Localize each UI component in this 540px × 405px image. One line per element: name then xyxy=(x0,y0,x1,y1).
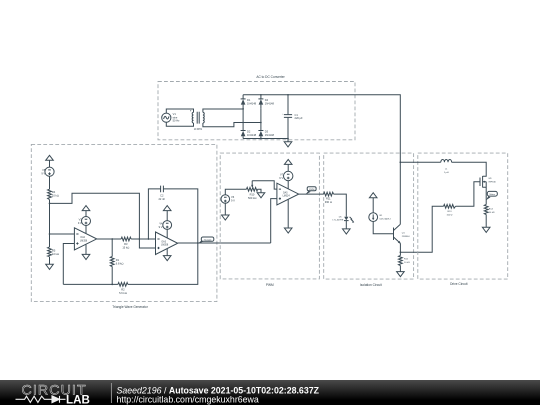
svg-text:R11: R11 xyxy=(326,197,331,201)
svg-text:LM358: LM358 xyxy=(80,241,88,243)
wire triangle input to opamp plus xyxy=(271,199,277,243)
junction dot triangle output xyxy=(197,242,199,244)
svg-text:PWM: PWM xyxy=(309,189,315,191)
svg-text:IRF530: IRF530 xyxy=(489,182,497,184)
junction dot emitter xyxy=(400,251,402,253)
wire node A to D2 xyxy=(242,109,244,131)
wire pot wiper to opamp minus xyxy=(252,181,277,189)
wire secondary bottom to bridge node B xyxy=(203,123,261,127)
svg-text:1N4148: 1N4148 xyxy=(265,133,275,137)
svg-text:V7: V7 xyxy=(280,172,284,176)
svg-text:V1: V1 xyxy=(173,112,177,116)
junction dot rail D4 xyxy=(260,94,262,96)
svg-text:10 kΩ: 10 kΩ xyxy=(489,211,495,214)
source V4 xyxy=(159,221,172,230)
wire pot right to ground xyxy=(258,189,262,192)
svg-text:R12: R12 xyxy=(404,259,409,261)
ground below LED xyxy=(343,229,351,234)
svg-text:500 kΩ: 500 kΩ xyxy=(248,196,256,200)
diode D3 xyxy=(258,130,274,139)
svg-text:Triangle: Triangle xyxy=(204,238,213,241)
svg-text:R1: R1 xyxy=(116,258,120,262)
svg-text:R4: R4 xyxy=(52,190,56,194)
transformer polarity dot xyxy=(190,110,191,111)
wire R1 to bottom net xyxy=(111,267,113,285)
svg-text:D2: D2 xyxy=(247,130,251,134)
svg-text:D4: D4 xyxy=(265,98,269,102)
svg-text:10 kΩ: 10 kΩ xyxy=(52,194,59,198)
LED D5 xyxy=(332,216,354,222)
svg-text:10 kΩ: 10 kΩ xyxy=(404,261,410,264)
svg-text:D5: D5 xyxy=(339,216,343,218)
svg-text:V4: V4 xyxy=(159,221,163,225)
logo resistor zigzag xyxy=(16,396,53,402)
resistor R2 xyxy=(118,283,128,296)
svg-text:220 µF: 220 µF xyxy=(295,116,304,120)
separator line xyxy=(110,383,112,403)
resistor R12 xyxy=(399,256,411,266)
transformer core xyxy=(197,112,199,124)
transformer TX primary winding xyxy=(192,112,193,123)
wire rail to L1 xyxy=(400,161,441,163)
C2 feedback vertical wire xyxy=(148,189,160,239)
svg-text:R2: R2 xyxy=(121,288,125,292)
wire secondary top to bridge node A xyxy=(203,109,243,112)
wire bias rail down xyxy=(49,203,51,234)
source V6 xyxy=(221,195,235,204)
wire LED to ground xyxy=(345,221,347,229)
wire node B to D3 xyxy=(260,109,262,131)
wire V4 to opamp2 xyxy=(166,229,168,237)
transistor Q1 xyxy=(394,224,411,244)
svg-text:L1: L1 xyxy=(445,169,448,171)
svg-text:AC to DC Converter: AC to DC Converter xyxy=(256,75,285,79)
resistor R4 xyxy=(48,189,59,199)
Drive Circuit block box xyxy=(418,153,508,279)
svg-text:sine: sine xyxy=(173,115,178,119)
svg-text:6.8 kΩ: 6.8 kΩ xyxy=(116,261,124,265)
ground below R12 xyxy=(397,272,405,277)
svg-text:V5: V5 xyxy=(42,168,46,172)
svg-text:10 kΩ: 10 kΩ xyxy=(52,252,59,256)
svg-text:LAB: LAB xyxy=(66,393,90,405)
svg-text:9 V: 9 V xyxy=(279,176,283,180)
wire down to R5 xyxy=(49,234,51,247)
svg-text:LM358: LM358 xyxy=(161,245,169,247)
svg-text:9 V: 9 V xyxy=(231,199,235,203)
capacitor C1 xyxy=(282,95,303,139)
AC to DC Converter block box xyxy=(158,82,355,140)
svg-text:LTL-307EE: LTL-307EE xyxy=(332,220,343,222)
svg-text:D1: D1 xyxy=(247,98,251,102)
wire B1 to Q1 base xyxy=(373,222,393,234)
resistor R3 xyxy=(121,237,131,249)
wire M1 source down to R14 xyxy=(485,182,487,205)
potentiometer R10 xyxy=(246,181,257,200)
transformer secondary winding xyxy=(203,112,204,123)
resistor R13 xyxy=(444,204,456,216)
op-amp OA3 xyxy=(156,232,178,255)
svg-text:Drive Circuit: Drive Circuit xyxy=(450,282,467,286)
junction dot bottom rail C1 xyxy=(287,138,289,140)
svg-text:http://circuitlab.com/cmgekuxh: http://circuitlab.com/cmgekuxhr6ewa xyxy=(117,394,259,404)
svg-text:OA3: OA3 xyxy=(161,240,166,243)
svg-text:9 V: 9 V xyxy=(78,221,82,225)
wire R1 branch xyxy=(111,239,113,257)
Triangle Wave Generator block box xyxy=(31,144,217,301)
svg-text:2N3904: 2N3904 xyxy=(402,236,410,238)
junction dot C2 feedback xyxy=(148,238,150,240)
svg-text:PWM: PWM xyxy=(266,283,274,287)
flag PWM tail xyxy=(305,191,311,195)
junction dot output R1 xyxy=(111,238,113,240)
bottom feedback wire left xyxy=(63,283,118,285)
source V3 xyxy=(78,217,91,226)
svg-text:M1: M1 xyxy=(489,178,493,180)
wire R5 to ground xyxy=(49,257,51,265)
ground below op-amp OA2 xyxy=(82,245,90,260)
svg-text:R14: R14 xyxy=(489,208,494,210)
svg-text:C1: C1 xyxy=(295,113,299,117)
PWM block box xyxy=(220,153,319,279)
node A dot xyxy=(242,108,244,110)
svg-text:15 kΩ: 15 kΩ xyxy=(122,246,129,250)
wire V5 to R4 xyxy=(49,176,51,189)
svg-text:Motor: Motor xyxy=(490,193,496,196)
C2 right wire to output net xyxy=(163,189,197,243)
svg-text:D3: D3 xyxy=(265,130,269,134)
capacitor C2 xyxy=(158,186,165,201)
svg-text:9 V: 9 V xyxy=(159,225,163,229)
opamp1 output wire xyxy=(97,238,121,240)
resistor R11 xyxy=(324,192,334,204)
svg-text:390 Ω: 390 Ω xyxy=(325,200,332,204)
diode D4 xyxy=(258,95,274,109)
ground below op-amp OA5 xyxy=(284,199,292,233)
diode D2 xyxy=(241,130,257,139)
resistor R5 xyxy=(48,247,59,257)
wire V1 top to transformer primary xyxy=(166,109,193,113)
wire emitter to drive block xyxy=(400,206,443,252)
wire V6 bottom to ground xyxy=(224,203,226,215)
junction dot minus input tap xyxy=(49,233,51,235)
opamp1 plus input wire from feedback xyxy=(63,244,74,285)
wire bias to opamp2 plus net xyxy=(50,193,156,248)
flag PWM xyxy=(307,187,316,191)
svg-text:R5: R5 xyxy=(52,248,56,252)
wire V3 to opamp1 xyxy=(85,226,87,234)
wire R4 to junction xyxy=(49,200,51,204)
wire M1 gate xyxy=(456,182,481,207)
svg-text:I(D5.nA)/9.2: I(D5.nA)/9.2 xyxy=(380,218,392,221)
flag Triangle xyxy=(201,237,214,241)
flag Motor xyxy=(487,191,497,196)
svg-text:Q1: Q1 xyxy=(402,232,406,234)
ground below V6 xyxy=(222,215,230,220)
junction dot bottom rail D3 xyxy=(260,138,262,140)
svg-text:100 Ω: 100 Ω xyxy=(447,213,453,216)
current source B1 xyxy=(369,213,392,222)
wire R12 to ground xyxy=(399,266,401,272)
wire R14 to ground xyxy=(485,215,487,228)
junction dot bias cross xyxy=(139,238,141,240)
svg-text:1N4148: 1N4148 xyxy=(247,102,257,106)
ground below R5 xyxy=(46,264,54,269)
svg-text:10 MH1: 10 MH1 xyxy=(194,128,203,131)
wire L1 to M1 drain xyxy=(452,162,487,176)
mosfet M1 xyxy=(480,176,497,188)
resistor R14 xyxy=(484,205,495,215)
inductor L1 xyxy=(441,159,452,174)
node bias junction dot xyxy=(49,203,51,205)
source V1 sine xyxy=(162,112,180,123)
ground below R14 xyxy=(482,227,490,232)
svg-text:1N4148: 1N4148 xyxy=(265,102,275,106)
opamp2 output wire to PWM block xyxy=(178,242,271,244)
ground below op-amp OA3 xyxy=(163,249,171,261)
svg-text:5.6 kΩ: 5.6 kΩ xyxy=(119,291,127,295)
wire V6 top to pot xyxy=(225,189,246,194)
junction dot bottom R1 xyxy=(111,284,113,286)
logo diode xyxy=(52,396,66,403)
ground below C1 xyxy=(284,139,292,147)
wire R2 to output vertical xyxy=(128,243,198,284)
svg-text:9 V: 9 V xyxy=(41,172,45,176)
flag Motor tail xyxy=(486,196,491,200)
ground at pot xyxy=(257,193,265,198)
svg-text:R10: R10 xyxy=(250,193,255,197)
power flag above V4 xyxy=(163,206,171,221)
svg-text:R13: R13 xyxy=(447,211,452,213)
flag Triangle tail xyxy=(198,241,204,244)
wire R3 to opamp2 minus xyxy=(131,238,155,240)
svg-text:OA2: OA2 xyxy=(80,236,85,239)
wire V1 bottom to transformer primary bottom xyxy=(166,122,193,126)
wire V7 to opamp xyxy=(287,181,289,189)
svg-text:1N4148: 1N4148 xyxy=(247,133,257,137)
svg-text:C2: C2 xyxy=(160,194,164,198)
svg-text:22 nF: 22 nF xyxy=(158,197,165,201)
power flag above B1 xyxy=(369,193,377,213)
diode D1 xyxy=(241,95,257,109)
power flag above V5 xyxy=(46,155,54,167)
Isolation Circuit block box xyxy=(324,153,414,279)
svg-text:V3: V3 xyxy=(79,217,83,221)
svg-text:Triangle Wave Generator: Triangle Wave Generator xyxy=(112,305,148,309)
source V5 xyxy=(41,167,54,176)
svg-text:B1: B1 xyxy=(380,215,383,217)
source V7 xyxy=(279,171,293,180)
svg-text:1 µH: 1 µH xyxy=(444,172,449,174)
DC top rail to isolation circuit xyxy=(243,95,400,224)
bottom rail xyxy=(243,138,288,140)
opamp OA5 output wire xyxy=(299,193,324,195)
wire Q1 emitter down xyxy=(399,243,401,255)
wire to opamp1 minus input xyxy=(50,233,75,235)
resistor R1 xyxy=(110,257,123,267)
power flag above V7 xyxy=(284,159,292,171)
op-amp OA5 xyxy=(277,183,299,205)
junction dot rail L1 xyxy=(399,161,401,163)
wire R11 to LED xyxy=(334,194,347,217)
junction dot rail C1 xyxy=(287,94,289,96)
svg-text:Isolation Circuit: Isolation Circuit xyxy=(360,283,382,287)
op-amp OA2 xyxy=(74,228,96,250)
svg-text:50 Hz: 50 Hz xyxy=(173,119,180,123)
svg-text:LM324: LM324 xyxy=(283,196,291,198)
svg-text:V6: V6 xyxy=(231,195,235,199)
svg-text:OA5: OA5 xyxy=(283,191,288,194)
node B dot xyxy=(260,122,262,124)
svg-text:R3: R3 xyxy=(124,242,128,246)
power flag above V3 xyxy=(82,206,90,217)
